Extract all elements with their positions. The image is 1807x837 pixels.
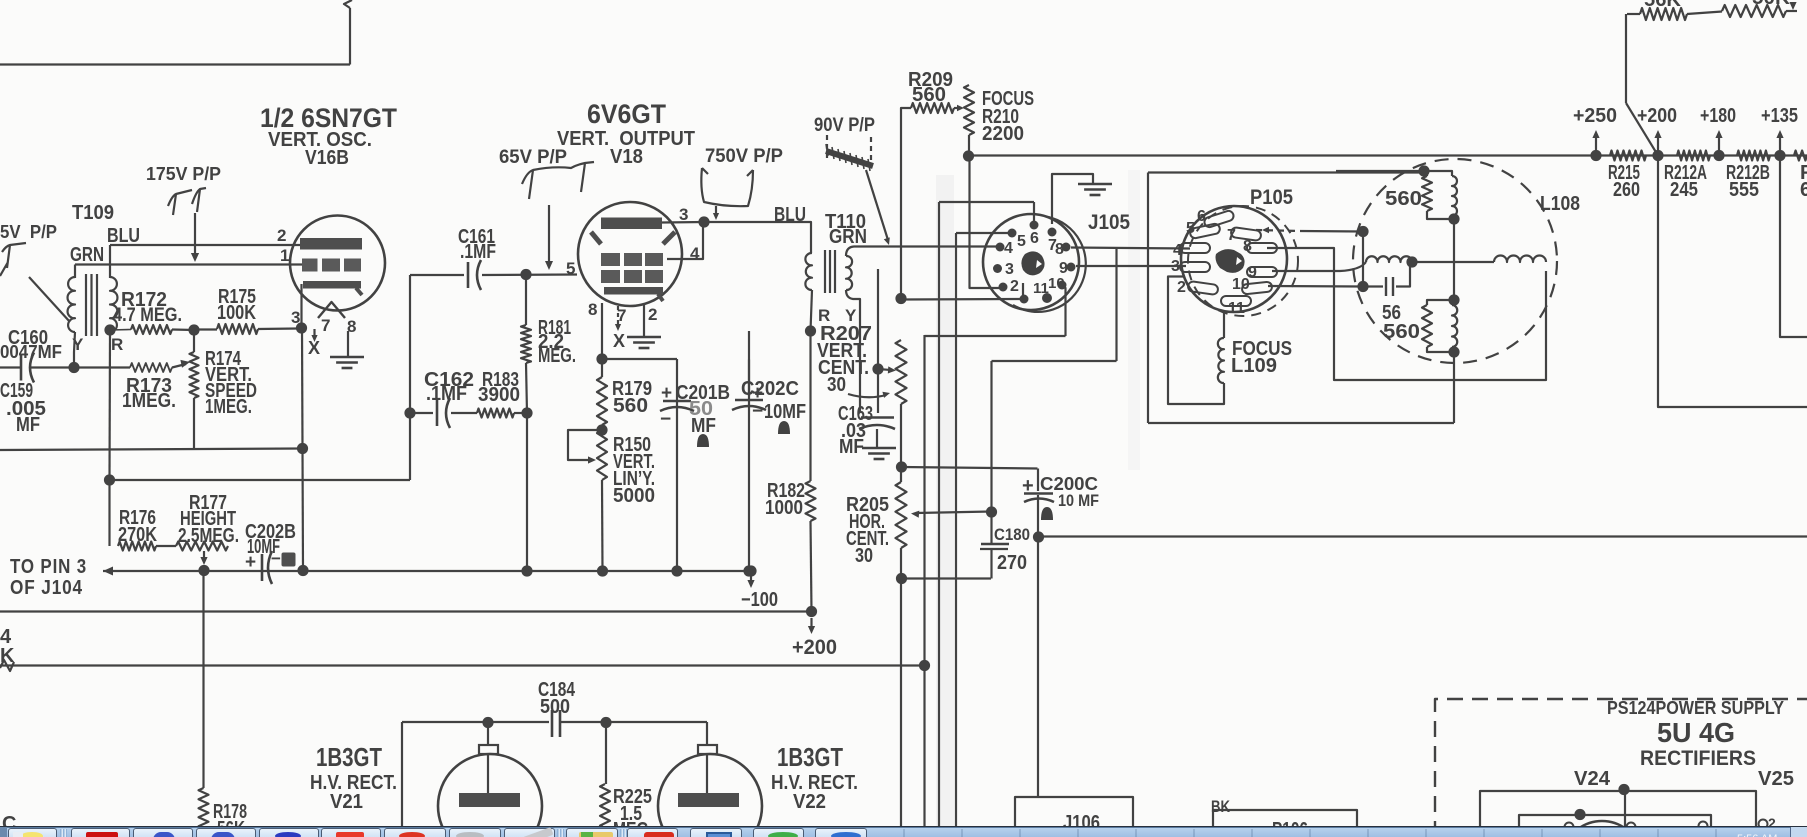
- wire R150 wiper loop: [568, 430, 602, 460]
- label 90V P/P: [814, 115, 875, 136]
- connector P105 box: [1148, 173, 1454, 424]
- polarity C202C: [778, 421, 790, 434]
- wire +135 down: [1780, 156, 1807, 338]
- label MEG.: [538, 345, 576, 367]
- svg-text:8: 8: [1055, 241, 1064, 258]
- node +200: [1652, 150, 1663, 161]
- wire R177 wiper: [203, 551, 205, 560]
- wire: [901, 108, 911, 299]
- label 270K: [118, 524, 157, 546]
- wire: [1037, 469, 1039, 492]
- label LINY: [613, 468, 655, 490]
- svg-text:V24: V24: [1574, 768, 1611, 790]
- label 560 bottom: [1383, 321, 1420, 343]
- svg-text:+180: +180: [1700, 105, 1736, 127]
- svg-text:560: 560: [613, 395, 648, 417]
- svg-text:K: K: [0, 645, 15, 667]
- label 5000: [613, 485, 655, 507]
- label 500: [540, 696, 570, 718]
- svg-text:6V6GT: 6V6GT: [587, 99, 666, 129]
- label GRN: [70, 244, 104, 266]
- resistor R179: [597, 359, 607, 425]
- node: [1357, 226, 1368, 237]
- node: [297, 443, 308, 454]
- tube V16B heater: [318, 302, 345, 318]
- wire y367: [30, 366, 130, 368]
- node: [188, 324, 199, 335]
- label pin 7 V18: [617, 306, 626, 325]
- power supply box: [1435, 699, 1807, 837]
- wire C162 lead: [410, 412, 433, 414]
- tube V21 plate: [459, 793, 520, 807]
- label T110: [825, 211, 866, 233]
- svg-text:11: 11: [1228, 300, 1245, 317]
- wire +200 down: [1658, 156, 1807, 408]
- svg-text:500: 500: [540, 696, 570, 718]
- label VERT. R150: [613, 451, 655, 473]
- wire x677: [676, 359, 678, 571]
- label pin 8 V18: [588, 300, 597, 319]
- label C201B: [676, 382, 730, 404]
- svg-text:5: 5: [1186, 220, 1195, 237]
- arrow +200: [1654, 130, 1661, 152]
- resistor 50K: [1687, 5, 1786, 17]
- label 100K: [217, 302, 256, 324]
- arrow to pin3: [103, 567, 113, 576]
- label 50: [689, 398, 713, 420]
- wire bus x924: [923, 335, 925, 837]
- svg-text:5: 5: [1017, 233, 1026, 250]
- node: [1406, 256, 1417, 267]
- label 56K: [217, 818, 245, 837]
- tube V18 grid1: [601, 253, 663, 266]
- wire bus x939: [938, 202, 940, 837]
- node: [596, 424, 607, 435]
- node pin3 junction: [296, 322, 307, 333]
- label R174: [205, 348, 242, 370]
- wire: [109, 245, 111, 278]
- wire pin9 to coil: [1272, 262, 1366, 271]
- label GRN T110: [829, 226, 867, 248]
- svg-text:10: 10: [1232, 276, 1250, 293]
- node: [597, 565, 608, 576]
- wire pin1 GRN: [75, 263, 302, 265]
- svg-text:BLU: BLU: [107, 225, 140, 247]
- wire rail: [969, 154, 1807, 156]
- wire x1116: [1115, 248, 1117, 362]
- resistor R212C partial: [1794, 151, 1807, 161]
- label -100: [741, 589, 778, 611]
- inductor bottom: [1452, 300, 1457, 352]
- svg-text:V25: V25: [1758, 768, 1794, 790]
- label TO PIN 3: [10, 556, 87, 578]
- label 1.5: [620, 803, 642, 825]
- connector J105 center key: [1021, 251, 1044, 275]
- label .1MF C161: [460, 241, 496, 263]
- resistor R176: [118, 542, 156, 551]
- svg-text:3: 3: [1005, 261, 1014, 278]
- node +135: [1774, 150, 1785, 161]
- arrow 50K: [1789, 2, 1796, 10]
- node: [743, 565, 754, 576]
- resistor R183: [477, 409, 514, 418]
- connector J105 outline: [983, 214, 1086, 312]
- label R183: [482, 369, 519, 391]
- label pin 8: [347, 317, 356, 336]
- label V24: [1574, 768, 1611, 790]
- pin 7 P105: [1227, 227, 1236, 244]
- svg-text:−: −: [752, 401, 763, 422]
- wire x527: [526, 413, 528, 571]
- label R partial: [1800, 162, 1807, 184]
- arrow +135: [1776, 130, 1783, 152]
- label C159: [0, 380, 33, 402]
- svg-text:3: 3: [291, 308, 300, 327]
- wire: [1786, 10, 1797, 12]
- svg-text:1B3GT: 1B3GT: [777, 742, 843, 772]
- resistor R172: [131, 325, 172, 334]
- node: [596, 353, 607, 364]
- label pin 3 V18: [679, 205, 688, 224]
- capacitor C202B: [245, 549, 296, 584]
- node +180: [1713, 150, 1724, 161]
- wire y571: [103, 570, 751, 572]
- label +200: [792, 636, 837, 659]
- svg-text:8: 8: [1243, 238, 1252, 255]
- label partial C: [2, 813, 16, 835]
- label C202B: [245, 521, 296, 543]
- svg-text:3: 3: [1171, 258, 1180, 275]
- wire pin7 dashed: [1256, 227, 1300, 233]
- node: [1618, 784, 1629, 795]
- node: [805, 325, 816, 336]
- label X: [308, 338, 320, 358]
- label 175V P/P: [146, 164, 221, 184]
- connector P105 slots: [1180, 210, 1277, 306]
- svg-text:RECTIFIERS: RECTIFIERS: [1640, 747, 1756, 770]
- svg-text:7: 7: [321, 316, 330, 335]
- arrow R173 wiper: [180, 360, 190, 368]
- pin 5 J105: [1008, 229, 1027, 251]
- node: [1357, 281, 1368, 292]
- svg-text:750V P/P: 750V P/P: [705, 146, 783, 167]
- label 50K: [1752, 0, 1791, 9]
- connector P106 box: [1213, 810, 1357, 837]
- wire: [1037, 537, 1039, 797]
- wire diag: [1626, 103, 1658, 156]
- label R209: [908, 69, 953, 91]
- arrow R150 wiper: [588, 456, 596, 463]
- resistor stub left: [0, 660, 14, 671]
- label .03: [841, 420, 866, 442]
- resistor R209: [911, 103, 954, 113]
- svg-text:V21: V21: [330, 791, 363, 813]
- arrow minus100: [747, 576, 754, 588]
- label 65V P/P: [499, 147, 567, 168]
- label R210: [982, 106, 1019, 128]
- wire pin6 riser: [1033, 202, 1035, 222]
- label R182: [767, 480, 805, 502]
- wire 5U4G outer box: [1480, 791, 1756, 828]
- pin 9 J105: [1059, 260, 1076, 277]
- svg-text:4: 4: [1004, 240, 1013, 257]
- pin 6 P105: [1197, 208, 1206, 225]
- label HEIGHT: [180, 508, 236, 530]
- label V18: [610, 146, 643, 168]
- resistor 56K: [1627, 8, 1687, 20]
- label 260: [1613, 179, 1640, 201]
- label +180: [1700, 105, 1736, 127]
- resistor R225: [600, 723, 610, 834]
- inductor mid right: [1494, 256, 1546, 263]
- svg-text:5V P/P: 5V P/P: [0, 222, 57, 242]
- wire: [877, 369, 879, 413]
- wire R lead: [811, 290, 813, 331]
- svg-text:X: X: [613, 331, 625, 351]
- tube V21 envelope: [438, 754, 542, 837]
- label R205: [846, 494, 889, 516]
- scan seam band: [936, 170, 1140, 827]
- wire pin10 riser: [1062, 286, 1066, 336]
- label R175: [218, 286, 256, 308]
- wire: [349, 8, 351, 65]
- node: [600, 717, 611, 728]
- wire pointer to T109: [29, 277, 70, 322]
- tube V21 cap lead: [487, 722, 489, 746]
- node: [1448, 346, 1459, 357]
- wire BLU corner: [704, 222, 811, 253]
- transformer T109 right coil: [110, 277, 117, 332]
- label 6 partial: [1800, 179, 1807, 201]
- svg-text:560: 560: [1383, 321, 1420, 343]
- node: [404, 407, 415, 418]
- wire 750V pointer: [715, 206, 717, 215]
- svg-text:6: 6: [1800, 179, 1807, 201]
- wire GRN: [846, 247, 998, 257]
- svg-text:BLU: BLU: [774, 204, 806, 226]
- wire x1363: [1362, 232, 1364, 287]
- label MF C201B: [691, 415, 716, 437]
- label MEG R225: [613, 819, 653, 837]
- label +135: [1761, 105, 1798, 127]
- wire: [1168, 277, 1224, 405]
- resistor R174: [190, 330, 199, 450]
- wire y611: [0, 610, 811, 612]
- label T109: [72, 202, 114, 224]
- wire y722: [402, 721, 549, 723]
- wire 90V pointer: [866, 170, 888, 240]
- label 2.2: [538, 331, 564, 353]
- label .005: [6, 398, 46, 420]
- node: [1418, 165, 1429, 176]
- label 245: [1670, 179, 1698, 201]
- svg-text:+250: +250: [1573, 105, 1617, 127]
- resistor 560 top: [1422, 171, 1454, 219]
- label R: [111, 335, 123, 354]
- label 750V P/P: [705, 146, 783, 167]
- label L109: [1231, 355, 1277, 377]
- label V16B: [305, 147, 349, 169]
- polarity C200C: [1041, 507, 1053, 520]
- label C202C: [741, 378, 799, 400]
- svg-text:V22: V22: [793, 791, 826, 813]
- label C184: [538, 679, 576, 701]
- wire x749 C202C: [748, 331, 750, 571]
- svg-text:1MEG.: 1MEG.: [122, 390, 176, 412]
- connector P105 outline: [1181, 206, 1298, 316]
- svg-text:OF J104: OF J104: [10, 577, 83, 599]
- label R181: [538, 317, 571, 339]
- wire 30 pointer: [848, 394, 886, 397]
- label pin 1: [280, 246, 289, 265]
- wire pin3: [300, 284, 302, 328]
- svg-text:1MEG.: 1MEG.: [205, 396, 252, 418]
- tube V24 envelope arc: [1578, 821, 1626, 829]
- node: [986, 506, 997, 517]
- svg-text:175V P/P: 175V P/P: [146, 164, 221, 184]
- svg-text:2: 2: [1177, 279, 1186, 296]
- wire y480: [110, 479, 411, 481]
- label R172: [121, 289, 167, 311]
- svg-text:MF: MF: [839, 436, 864, 458]
- wire x410: [409, 275, 411, 480]
- label CENT. R207: [818, 357, 869, 379]
- resistor R210: [964, 85, 974, 156]
- label R225: [613, 786, 652, 808]
- svg-text:.1MF: .1MF: [426, 383, 467, 405]
- svg-text:260: 260: [1613, 179, 1640, 201]
- node: [1574, 809, 1585, 820]
- node: [895, 293, 906, 304]
- svg-text:555: 555: [1729, 179, 1759, 201]
- label .1MF C162: [426, 383, 467, 405]
- inductor L109: [1218, 338, 1224, 383]
- arrow X V18: [615, 324, 621, 331]
- wire: [110, 329, 131, 332]
- label CENT. R205: [846, 528, 889, 550]
- pin circles 5U4G: [1565, 820, 1768, 832]
- wire C161 lead: [410, 274, 464, 276]
- label 10MF C200C: [1058, 491, 1099, 510]
- svg-text:10MF: 10MF: [764, 401, 806, 423]
- ground V16B: [330, 357, 364, 368]
- label J105: [1088, 211, 1130, 234]
- label L108: [1540, 193, 1580, 215]
- pin 5 P105: [1186, 220, 1195, 237]
- label pin 5: [566, 259, 575, 278]
- arrow 65V: [545, 261, 553, 270]
- label V25: [1758, 768, 1794, 790]
- label 2 5U4G: [1768, 815, 1776, 831]
- arrow 175V: [191, 253, 199, 262]
- label P105: [1250, 186, 1293, 209]
- arrow R209 wiper: [954, 105, 964, 111]
- wire pin8 to P105: [1071, 248, 1190, 249]
- svg-text:+: +: [1022, 475, 1034, 497]
- pin 4 P105: [1173, 242, 1182, 259]
- resistor R177: [156, 542, 228, 551]
- svg-text:30: 30: [855, 545, 873, 567]
- label 10MF C202B: [247, 536, 280, 558]
- inductor mid left: [1366, 256, 1412, 262]
- wire bus x956: [955, 233, 957, 837]
- node: [482, 717, 493, 728]
- label pin 2: [277, 226, 286, 245]
- label 1000: [765, 497, 803, 519]
- pin 11 P105: [1228, 300, 1245, 317]
- wire: [1037, 495, 1039, 537]
- capacitor 56: [1363, 262, 1410, 296]
- wire: [74, 265, 76, 279]
- pin 2 P105: [1177, 279, 1186, 296]
- svg-text:1: 1: [280, 246, 289, 265]
- svg-text:+200: +200: [792, 636, 837, 659]
- pin 9 P105: [1248, 264, 1257, 281]
- wire: [74, 332, 75, 367]
- svg-text:MF: MF: [16, 414, 40, 436]
- svg-text:4: 4: [690, 244, 700, 263]
- wire: [990, 549, 992, 579]
- svg-text:2.5MEG.: 2.5MEG.: [178, 525, 239, 547]
- svg-text:V18: V18: [610, 146, 643, 168]
- label BLU: [107, 225, 140, 247]
- pin 8 J105: [1055, 241, 1071, 258]
- ground C163: [862, 448, 896, 459]
- tube V18 cathode: [604, 287, 663, 301]
- inductor L108 boundary: [1353, 159, 1557, 363]
- wire pin10 to cap: [1268, 285, 1363, 288]
- node: [872, 363, 883, 374]
- wire pin9 to P105: [1076, 265, 1186, 267]
- capacitor C160: [0, 353, 34, 383]
- wire y361: [992, 360, 1117, 362]
- tube V21 cap: [479, 745, 498, 754]
- svg-text:−100: −100: [741, 589, 778, 611]
- label 30 R207: [827, 374, 846, 396]
- svg-text:8: 8: [588, 300, 597, 319]
- label 2.5MEG.: [178, 525, 239, 547]
- label HV RECT V22: [771, 772, 858, 794]
- label Y T110: [845, 306, 857, 325]
- label R207: [820, 323, 872, 345]
- label 5V P/P: [0, 222, 57, 242]
- label FOCUS L109: [1232, 338, 1292, 360]
- label 56K: [1644, 0, 1682, 11]
- node: [919, 660, 930, 671]
- label C200C: [1040, 474, 1098, 494]
- wire y536: [1039, 535, 1807, 537]
- ground V18: [627, 337, 661, 348]
- svg-text:10: 10: [1048, 275, 1065, 292]
- wire: [0, 63, 350, 65]
- svg-text:3900: 3900: [478, 384, 520, 406]
- label 4: [0, 626, 12, 648]
- label MF: [16, 414, 40, 436]
- svg-text:270: 270: [997, 552, 1027, 574]
- wire: [602, 358, 677, 360]
- label +200: [1637, 105, 1677, 127]
- node Y junction: [68, 362, 79, 373]
- label VERT.: [205, 364, 252, 386]
- wire x707: [706, 722, 708, 746]
- wire y299 to pin11: [901, 298, 1024, 301]
- wire: [1453, 219, 1455, 300]
- wire y450: [0, 449, 303, 451]
- node R junction: [104, 324, 115, 335]
- node minus100: [745, 565, 756, 576]
- wire: [172, 328, 194, 331]
- tube V22 envelope: [658, 754, 762, 837]
